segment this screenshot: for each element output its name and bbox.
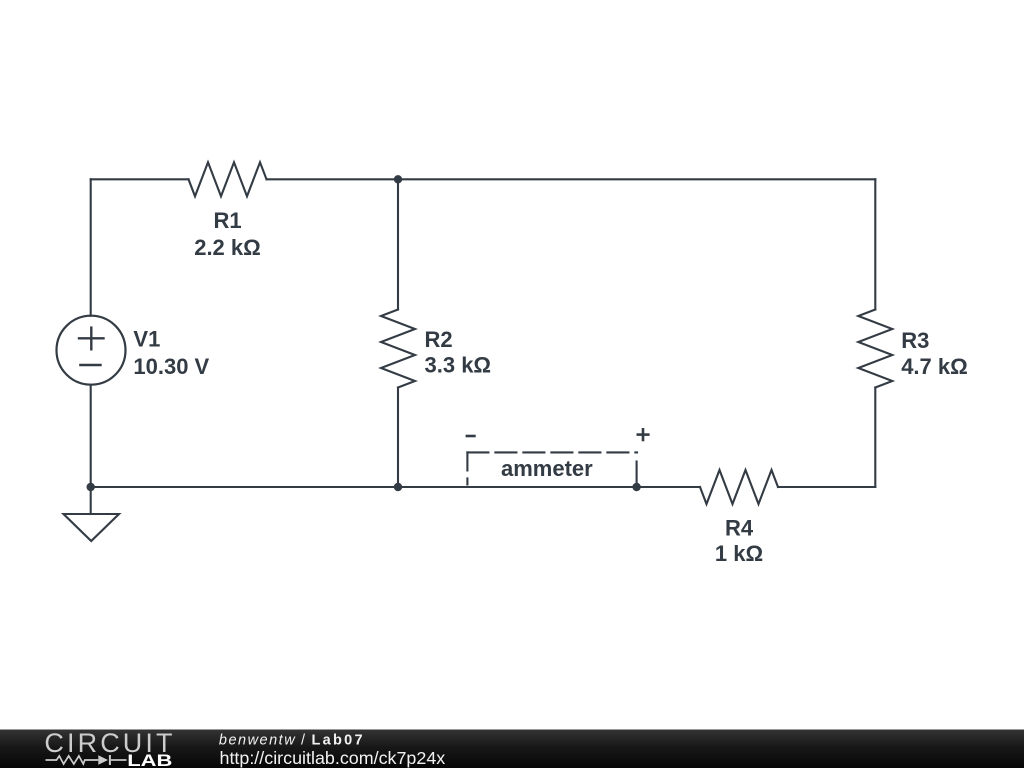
svg-text:LAB: LAB [127,751,172,768]
svg-text:Lab07: Lab07 [312,732,365,748]
svg-text:4.7 kΩ: 4.7 kΩ [901,354,968,379]
svg-text:http://circuitlab.com/ck7p24x: http://circuitlab.com/ck7p24x [220,748,446,768]
svg-text:1 kΩ: 1 kΩ [715,541,763,566]
svg-text:benwentw: benwentw [219,732,296,748]
svg-text:R4: R4 [725,516,754,541]
svg-text:R2: R2 [425,327,453,352]
svg-text:R1: R1 [213,208,241,233]
svg-text:ammeter: ammeter [501,456,593,481]
svg-text:10.30 V: 10.30 V [133,354,209,379]
svg-text:V1: V1 [133,327,160,352]
svg-text:2.2 kΩ: 2.2 kΩ [194,235,261,260]
svg-text:R3: R3 [901,328,929,353]
svg-text:3.3 kΩ: 3.3 kΩ [425,353,492,378]
